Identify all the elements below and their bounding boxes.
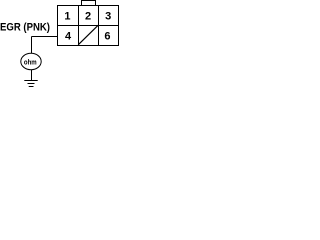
ground bar 2 bbox=[28, 83, 35, 85]
connector outline bbox=[58, 6, 119, 46]
connector column divider left bbox=[78, 6, 80, 46]
ohmmeter body bbox=[21, 53, 41, 69]
svg-text:6: 6 bbox=[104, 31, 110, 43]
wire ohmmeter to ground bbox=[31, 70, 33, 80]
connector key tab bbox=[82, 1, 96, 6]
svg-text:4: 4 bbox=[65, 31, 72, 43]
background bbox=[0, 0, 119, 87]
svg-text:3: 3 bbox=[105, 11, 111, 23]
ground bar 1 bbox=[24, 80, 37, 82]
svg-text:1: 1 bbox=[64, 11, 70, 23]
cell 5 blank diagonal bbox=[78, 25, 98, 45]
svg-text:2: 2 bbox=[85, 11, 91, 23]
wire vertical down to ohmmeter bbox=[31, 37, 33, 54]
svg-text:ohm: ohm bbox=[24, 58, 37, 67]
ground bar 3 bbox=[29, 86, 34, 88]
connector column divider right bbox=[98, 6, 100, 46]
wire horizontal from pin 4 bbox=[32, 36, 58, 38]
connector row divider bbox=[58, 25, 119, 27]
svg-text:EGR (PNK): EGR (PNK) bbox=[0, 22, 50, 34]
